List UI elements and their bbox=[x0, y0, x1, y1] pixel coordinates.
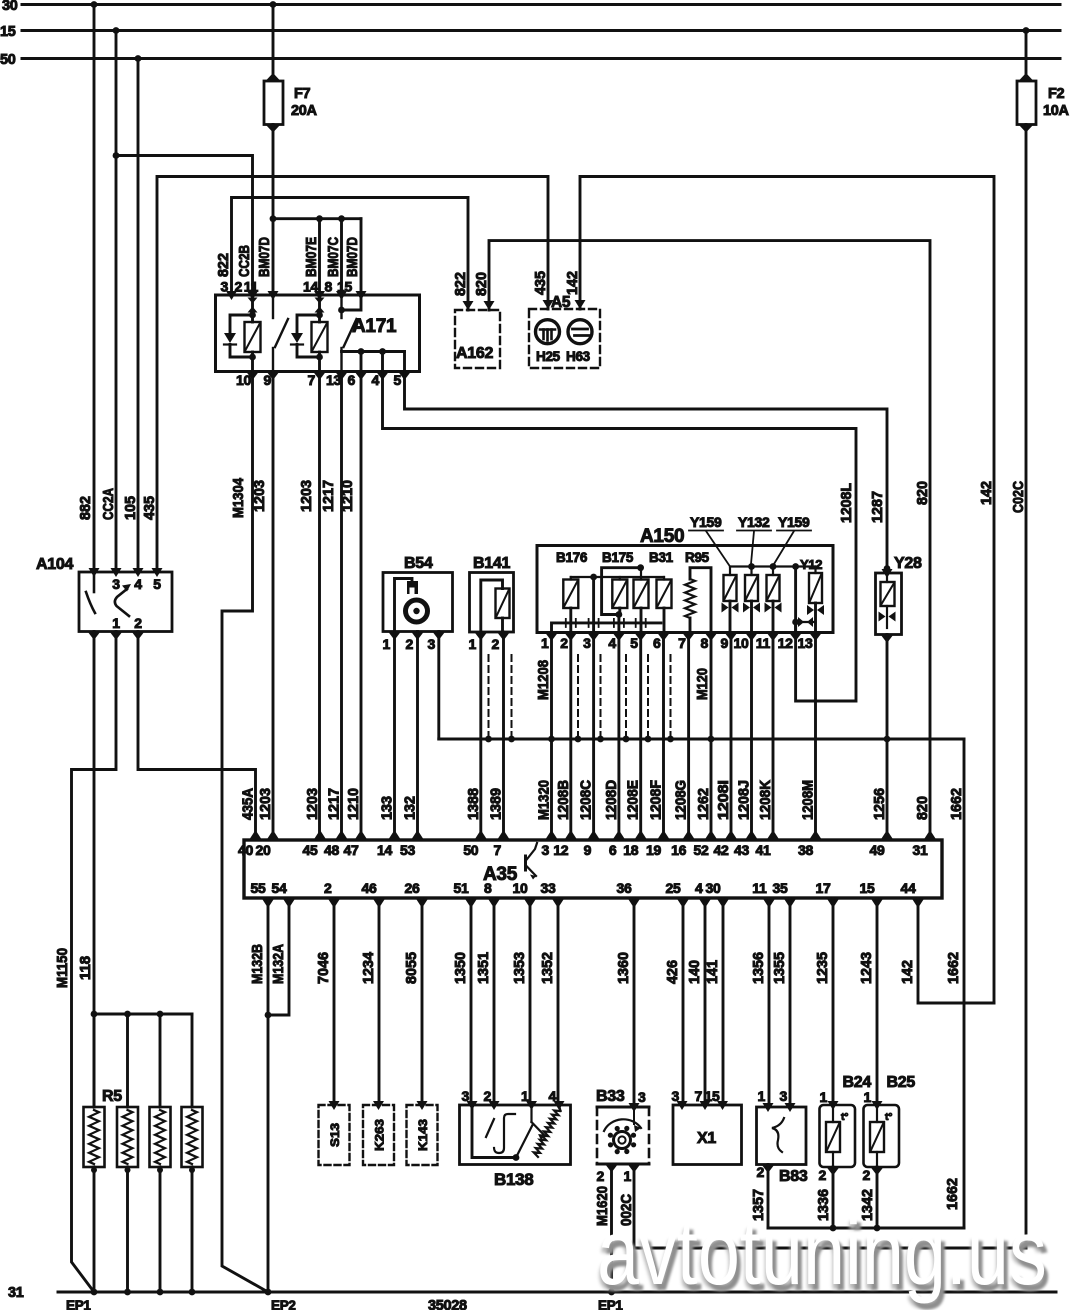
svg-text:25: 25 bbox=[666, 880, 681, 896]
svg-text:51: 51 bbox=[454, 880, 469, 896]
svg-text:B175: B175 bbox=[602, 550, 634, 565]
svg-text:4: 4 bbox=[134, 576, 142, 592]
svg-text:52: 52 bbox=[694, 842, 709, 858]
svg-text:50: 50 bbox=[0, 52, 16, 68]
svg-text:4: 4 bbox=[695, 880, 703, 896]
svg-text:44: 44 bbox=[901, 880, 916, 896]
svg-text:1: 1 bbox=[541, 635, 549, 651]
svg-text:142: 142 bbox=[900, 960, 916, 984]
svg-text:105: 105 bbox=[123, 496, 139, 520]
svg-text:1208F: 1208F bbox=[649, 780, 665, 820]
svg-text:45: 45 bbox=[303, 842, 318, 858]
svg-text:3: 3 bbox=[583, 635, 591, 651]
svg-text:8: 8 bbox=[484, 880, 492, 896]
svg-text:3: 3 bbox=[780, 1088, 788, 1104]
svg-text:1: 1 bbox=[758, 1088, 766, 1104]
svg-text:A104: A104 bbox=[36, 556, 73, 573]
svg-text:14: 14 bbox=[377, 842, 392, 858]
svg-text:3: 3 bbox=[462, 1088, 470, 1104]
svg-text:2: 2 bbox=[134, 615, 142, 631]
svg-text:42: 42 bbox=[714, 842, 729, 858]
svg-text:M132A: M132A bbox=[271, 944, 287, 984]
svg-text:30: 30 bbox=[706, 880, 721, 896]
svg-text:2: 2 bbox=[863, 1167, 871, 1183]
svg-text:9: 9 bbox=[721, 635, 729, 651]
svg-text:11: 11 bbox=[756, 635, 771, 651]
svg-text:1: 1 bbox=[521, 1088, 529, 1104]
svg-text:2: 2 bbox=[560, 635, 568, 651]
svg-text:1208D: 1208D bbox=[604, 780, 620, 820]
svg-text:X1: X1 bbox=[697, 1130, 716, 1147]
svg-text:1208C: 1208C bbox=[579, 780, 595, 820]
svg-text:R95: R95 bbox=[685, 550, 710, 565]
svg-text:1: 1 bbox=[383, 636, 391, 652]
svg-text:K143: K143 bbox=[416, 1119, 430, 1151]
svg-text:1203: 1203 bbox=[299, 480, 315, 512]
svg-text:C02C: C02C bbox=[1011, 481, 1027, 513]
svg-text:B141: B141 bbox=[473, 555, 510, 572]
svg-text:3: 3 bbox=[672, 1088, 680, 1104]
svg-text:6: 6 bbox=[609, 842, 617, 858]
svg-text:1203: 1203 bbox=[252, 480, 268, 512]
svg-text:36: 36 bbox=[617, 880, 632, 896]
svg-text:3: 3 bbox=[428, 636, 436, 652]
svg-text:17: 17 bbox=[816, 880, 831, 896]
svg-text:CC2A: CC2A bbox=[101, 488, 117, 520]
svg-text:B83: B83 bbox=[779, 1168, 808, 1185]
svg-text:M120: M120 bbox=[695, 668, 711, 700]
svg-text:15: 15 bbox=[705, 1088, 720, 1104]
svg-text:8055: 8055 bbox=[404, 952, 420, 984]
svg-text:9: 9 bbox=[584, 842, 592, 858]
svg-text:R5: R5 bbox=[102, 1088, 122, 1105]
svg-text:1: 1 bbox=[820, 1089, 828, 1105]
svg-text:2: 2 bbox=[406, 636, 414, 652]
svg-text:BM07E: BM07E bbox=[304, 237, 320, 277]
svg-text:M1208: M1208 bbox=[536, 660, 552, 700]
svg-text:1: 1 bbox=[469, 636, 477, 652]
svg-text:Y132: Y132 bbox=[738, 514, 770, 530]
svg-text:B25: B25 bbox=[887, 1074, 916, 1091]
svg-text:31: 31 bbox=[8, 1285, 24, 1301]
svg-text:47: 47 bbox=[344, 842, 359, 858]
svg-text:820: 820 bbox=[474, 272, 490, 296]
svg-text:31: 31 bbox=[913, 842, 928, 858]
svg-text:2: 2 bbox=[597, 1168, 605, 1184]
svg-text:6: 6 bbox=[653, 635, 661, 651]
svg-text:53: 53 bbox=[400, 842, 415, 858]
svg-text:132: 132 bbox=[403, 796, 419, 820]
svg-text:1360: 1360 bbox=[616, 952, 632, 984]
svg-text:435: 435 bbox=[533, 271, 549, 295]
svg-text:3: 3 bbox=[112, 576, 120, 592]
svg-text:2: 2 bbox=[484, 1088, 492, 1104]
svg-text:5: 5 bbox=[630, 635, 638, 651]
svg-text:7: 7 bbox=[695, 1088, 703, 1104]
svg-text:12: 12 bbox=[778, 635, 793, 651]
svg-text:2: 2 bbox=[819, 1167, 827, 1183]
svg-text:M132B: M132B bbox=[250, 944, 266, 984]
svg-text:1352: 1352 bbox=[540, 952, 556, 984]
svg-text:18: 18 bbox=[623, 842, 638, 858]
svg-text:1356: 1356 bbox=[751, 952, 767, 984]
svg-text:BM07D: BM07D bbox=[257, 237, 273, 277]
svg-text:CC2B: CC2B bbox=[237, 245, 253, 277]
svg-text:1235: 1235 bbox=[815, 952, 831, 984]
svg-text:1217: 1217 bbox=[321, 480, 337, 512]
svg-text:1350: 1350 bbox=[453, 952, 469, 984]
svg-text:F2: F2 bbox=[1048, 86, 1065, 102]
svg-text:46: 46 bbox=[362, 880, 377, 896]
svg-text:1353: 1353 bbox=[512, 952, 528, 984]
svg-text:1256: 1256 bbox=[872, 788, 888, 820]
svg-text:1262: 1262 bbox=[696, 788, 712, 820]
svg-text:3: 3 bbox=[638, 1089, 646, 1105]
svg-text:426: 426 bbox=[665, 960, 681, 984]
svg-text:Y12: Y12 bbox=[800, 557, 822, 572]
svg-text:1388: 1388 bbox=[466, 788, 482, 820]
svg-text:1203: 1203 bbox=[305, 788, 321, 820]
svg-text:7046: 7046 bbox=[316, 952, 332, 984]
svg-text:435A: 435A bbox=[241, 788, 257, 820]
svg-text:142: 142 bbox=[565, 271, 581, 295]
svg-text:33: 33 bbox=[541, 880, 556, 896]
svg-text:B31: B31 bbox=[649, 550, 674, 565]
svg-text:55: 55 bbox=[251, 880, 266, 896]
svg-text:1208L: 1208L bbox=[839, 483, 855, 523]
svg-text:6: 6 bbox=[348, 372, 356, 388]
svg-text:M1320: M1320 bbox=[537, 780, 553, 820]
svg-text:BM07C: BM07C bbox=[326, 237, 342, 277]
svg-text:40: 40 bbox=[238, 842, 253, 858]
svg-text:7: 7 bbox=[678, 635, 686, 651]
svg-text:50: 50 bbox=[463, 842, 478, 858]
svg-text:10A: 10A bbox=[1043, 103, 1070, 119]
svg-text:1662: 1662 bbox=[946, 952, 962, 984]
svg-text:820: 820 bbox=[915, 481, 931, 505]
svg-text:1217: 1217 bbox=[327, 788, 343, 820]
svg-text:140: 140 bbox=[687, 960, 703, 984]
svg-text:35028: 35028 bbox=[428, 1298, 467, 1310]
svg-text:1210: 1210 bbox=[346, 788, 362, 820]
svg-text:S13: S13 bbox=[328, 1123, 342, 1147]
svg-text:142: 142 bbox=[979, 481, 995, 505]
svg-text:1203: 1203 bbox=[258, 788, 274, 820]
svg-text:7: 7 bbox=[308, 372, 316, 388]
svg-text:1: 1 bbox=[624, 1168, 632, 1184]
svg-text:A150: A150 bbox=[640, 526, 684, 547]
svg-text:8: 8 bbox=[701, 635, 709, 651]
svg-text:1355: 1355 bbox=[772, 952, 788, 984]
svg-text:49: 49 bbox=[870, 842, 885, 858]
svg-text:Y159: Y159 bbox=[690, 514, 722, 530]
svg-text:Y159: Y159 bbox=[778, 514, 810, 530]
svg-text:1210: 1210 bbox=[340, 480, 356, 512]
svg-text:20A: 20A bbox=[291, 103, 318, 119]
svg-text:1: 1 bbox=[864, 1089, 872, 1105]
svg-text:41: 41 bbox=[756, 842, 771, 858]
svg-text:38: 38 bbox=[798, 842, 813, 858]
svg-text:A171: A171 bbox=[352, 316, 397, 337]
svg-text:20: 20 bbox=[256, 842, 271, 858]
svg-text:1662: 1662 bbox=[949, 788, 965, 820]
svg-text:4: 4 bbox=[608, 635, 616, 651]
svg-text:882: 882 bbox=[78, 496, 94, 520]
svg-text:1389: 1389 bbox=[489, 788, 505, 820]
svg-text:30: 30 bbox=[2, 0, 18, 14]
svg-text:1243: 1243 bbox=[859, 952, 875, 984]
svg-text:K263: K263 bbox=[373, 1119, 387, 1151]
svg-text:1287: 1287 bbox=[870, 491, 886, 523]
svg-text:Y28: Y28 bbox=[894, 555, 922, 572]
svg-text:EP2: EP2 bbox=[271, 1298, 296, 1310]
svg-text:11: 11 bbox=[752, 880, 767, 896]
svg-text:43: 43 bbox=[734, 842, 749, 858]
svg-text:M1304: M1304 bbox=[231, 478, 247, 518]
svg-text:7: 7 bbox=[494, 842, 502, 858]
svg-text:13: 13 bbox=[798, 635, 813, 651]
svg-text:35: 35 bbox=[773, 880, 788, 896]
svg-text:26: 26 bbox=[405, 880, 420, 896]
svg-text:822: 822 bbox=[453, 272, 469, 296]
svg-text:t°: t° bbox=[885, 1111, 892, 1123]
svg-text:4: 4 bbox=[549, 1088, 557, 1104]
svg-text:1351: 1351 bbox=[476, 952, 492, 984]
svg-text:1234: 1234 bbox=[361, 952, 377, 984]
svg-text:H63: H63 bbox=[566, 349, 591, 364]
svg-text:A5: A5 bbox=[551, 294, 571, 311]
svg-text:BM07D: BM07D bbox=[345, 237, 361, 277]
svg-text:133: 133 bbox=[380, 796, 396, 820]
svg-text:822: 822 bbox=[216, 253, 232, 277]
svg-text:1208E: 1208E bbox=[626, 780, 642, 820]
svg-text:8: 8 bbox=[325, 279, 333, 295]
svg-text:2: 2 bbox=[324, 880, 332, 896]
svg-text:820: 820 bbox=[915, 796, 931, 820]
svg-text:B33: B33 bbox=[596, 1088, 625, 1105]
svg-text:B138: B138 bbox=[494, 1170, 533, 1189]
svg-text:1208G: 1208G bbox=[674, 780, 690, 820]
svg-text:1: 1 bbox=[112, 615, 120, 631]
svg-text:1208K: 1208K bbox=[758, 780, 774, 820]
svg-text:B54: B54 bbox=[404, 555, 433, 572]
svg-text:3: 3 bbox=[542, 842, 550, 858]
svg-text:M1150: M1150 bbox=[55, 948, 71, 988]
svg-text:F7: F7 bbox=[294, 86, 311, 102]
svg-text:H25: H25 bbox=[536, 349, 561, 364]
svg-text:A162: A162 bbox=[456, 345, 493, 362]
svg-text:EP1: EP1 bbox=[66, 1298, 91, 1310]
svg-text:5: 5 bbox=[153, 576, 161, 592]
svg-text:16: 16 bbox=[671, 842, 686, 858]
svg-text:t°: t° bbox=[841, 1111, 848, 1123]
svg-text:19: 19 bbox=[646, 842, 661, 858]
svg-text:B176: B176 bbox=[556, 550, 588, 565]
svg-text:141: 141 bbox=[705, 960, 721, 984]
svg-text:54: 54 bbox=[272, 880, 287, 896]
svg-text:48: 48 bbox=[324, 842, 339, 858]
svg-text:12: 12 bbox=[553, 842, 568, 858]
svg-text:1208J: 1208J bbox=[737, 780, 753, 820]
svg-text:435: 435 bbox=[142, 496, 158, 520]
svg-text:1208B: 1208B bbox=[556, 780, 572, 820]
svg-text:1208M: 1208M bbox=[801, 780, 817, 820]
svg-text:15: 15 bbox=[860, 880, 875, 896]
svg-text:10: 10 bbox=[734, 635, 749, 651]
svg-text:118: 118 bbox=[78, 956, 94, 980]
svg-text:1208I: 1208I bbox=[716, 780, 732, 820]
svg-text:15: 15 bbox=[0, 24, 16, 40]
svg-text:10: 10 bbox=[513, 880, 528, 896]
svg-text:2: 2 bbox=[492, 636, 500, 652]
svg-text:2: 2 bbox=[757, 1164, 765, 1180]
